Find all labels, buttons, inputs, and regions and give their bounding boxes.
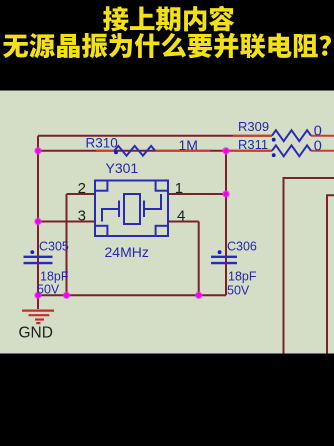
title line 1: 接上期内容: [103, 6, 234, 32]
capacitor C306 plates: [211, 257, 237, 263]
svg-text:4: 4: [177, 207, 185, 224]
wire: pin2 vertical to ground rail: [66, 194, 68, 295]
wire: right block outer corner: [284, 178, 334, 354]
wire: right column C306: [225, 151, 227, 295]
svg-text:2: 2: [78, 180, 86, 197]
pin stub: R310 right: [155, 150, 210, 152]
svg-text:18pF: 18pF: [40, 269, 69, 283]
svg-text:R311: R311: [238, 137, 268, 152]
pin stub: R309 left: [233, 135, 272, 137]
wire: pin4 horizontal: [168, 221, 199, 223]
pin-1 marker dots: [30, 138, 275, 254]
wire: pin3 horizontal: [38, 221, 95, 223]
schematic sheet background: [0, 91, 334, 354]
svg-text:3: 3: [78, 207, 86, 224]
svg-text:GND: GND: [19, 325, 53, 342]
junction dots: [35, 148, 229, 299]
ground symbol: [22, 295, 54, 323]
resistor R311 zigzag: [272, 145, 311, 156]
pin stub: R309 right: [311, 135, 334, 137]
svg-text:18pF: 18pF: [228, 269, 257, 283]
svg-text:50V: 50V: [227, 284, 250, 298]
svg-text:24MHz: 24MHz: [105, 244, 149, 260]
capacitor C305 plates: [24, 257, 53, 263]
wire: top net to R309: [38, 135, 272, 137]
wire: right block inner corner: [327, 195, 334, 353]
wire: pin2 horizontal: [67, 193, 96, 195]
wire: pin4 vertical to ground rail: [198, 222, 200, 296]
wire: XTAL1 net (R310/R311 row): [38, 150, 272, 152]
svg-text:0: 0: [314, 138, 322, 154]
svg-text:1M: 1M: [179, 137, 198, 153]
resistor R309 zigzag: [272, 130, 311, 141]
svg-text:0: 0: [314, 124, 322, 140]
wire: left vertical rail: [37, 136, 39, 296]
svg-text:R310: R310: [86, 136, 118, 151]
svg-text:Y301: Y301: [106, 160, 139, 176]
wire: pin1 to C306 column: [168, 193, 226, 195]
pin stub: R311 right: [311, 150, 334, 152]
svg-text:C305: C305: [39, 240, 69, 254]
pin stub: R310 left: [96, 150, 114, 152]
svg-text:C306: C306: [227, 240, 257, 254]
resistor R310 zigzag: [114, 146, 155, 156]
wire: bottom ground rail: [38, 294, 226, 296]
pin stub: R311 left: [228, 150, 272, 152]
svg-text:50V: 50V: [37, 283, 60, 297]
svg-text:1: 1: [175, 180, 183, 197]
title line 2: 无源晶振为什么要并联电阻？: [3, 33, 331, 59]
svg-text:R309: R309: [238, 119, 269, 134]
crystal Y301 body: [95, 181, 168, 237]
